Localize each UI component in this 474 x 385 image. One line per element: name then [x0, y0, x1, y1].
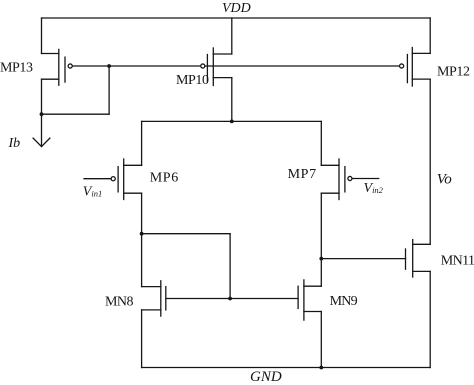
svg-text:Vin2: Vin2 [364, 181, 384, 196]
transistor MN9 [298, 280, 321, 320]
wire mirror link horizontal [142, 233, 231, 235]
node MP13 drain [40, 112, 44, 116]
wire MP6 drain to MN8 drain [141, 193, 143, 286]
wire MN8 source drop [141, 310, 143, 368]
wire diode connection horizontal [42, 113, 110, 115]
transistor MP6 [111, 159, 141, 200]
wire MP6 source riser [141, 121, 143, 165]
svg-text:MN9: MN9 [330, 294, 358, 309]
wire Vo line MP12 drain to MN11 drain [429, 79, 431, 244]
svg-text:MP10: MP10 [176, 73, 209, 88]
wire GND rail [142, 367, 431, 369]
wire tail node horizontal [142, 120, 322, 122]
wire gate bus MP13-MP10-MP12 [73, 65, 399, 67]
wire MN8-MN9 gate bus [166, 298, 298, 300]
node MN9 source at GND [319, 366, 323, 370]
transistor MP7 [321, 159, 352, 200]
svg-text:Vin1: Vin1 [83, 185, 102, 200]
wire Vin1 gate lead [84, 178, 111, 180]
svg-text:Vo: Vo [437, 171, 453, 187]
svg-text:MN8: MN8 [105, 295, 134, 310]
Ib arrowhead [33, 138, 50, 147]
transistor MN8 [142, 281, 166, 316]
svg-text:MP13: MP13 [0, 60, 33, 75]
wire MP7 source riser [320, 121, 322, 165]
svg-text:MP7: MP7 [288, 167, 317, 182]
node MN9 drain [319, 257, 323, 261]
wire MN11 gate lead [321, 258, 405, 260]
wire MP7 drain to MN9 drain [320, 193, 322, 286]
svg-text:MN11: MN11 [441, 253, 474, 268]
svg-text:GND: GND [250, 369, 282, 385]
node MP6 drain [140, 232, 144, 236]
wire MN9 source drop [320, 312, 322, 368]
svg-text:MP6: MP6 [150, 171, 179, 186]
wire MP10 source riser [231, 18, 233, 54]
svg-text:Ib: Ib [8, 136, 21, 151]
wire mirror link vertical [229, 234, 231, 299]
svg-text:MP12: MP12 [437, 65, 470, 80]
node gate bus junction [107, 64, 111, 68]
transistor MN11 [406, 240, 431, 277]
node mirror gate [228, 297, 232, 301]
transistor MP10 [201, 48, 232, 86]
wire MN11 source drop [429, 271, 431, 367]
wire MP13 source riser [41, 18, 43, 54]
wire diode connection vertical [108, 66, 110, 114]
wire MP13 drain drop [41, 79, 43, 114]
node tail [230, 120, 234, 124]
wire MP12 source riser [429, 18, 431, 53]
svg-text:VDD: VDD [222, 1, 251, 16]
wire Vin2 gate lead [352, 178, 378, 180]
wire MP10 drain drop [231, 78, 233, 122]
wire Ib current arrow stem [41, 114, 43, 146]
transistor MP12 [400, 48, 431, 87]
transistor MP13 [42, 49, 73, 85]
wire VDD rail [42, 17, 431, 19]
